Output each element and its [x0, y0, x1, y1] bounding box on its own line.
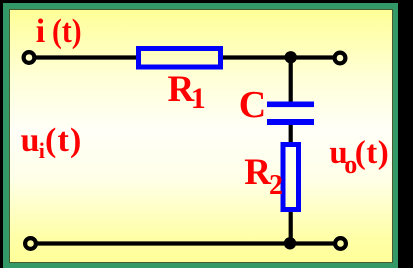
terminal bottom-right	[335, 238, 346, 249]
capacitor C top plate	[267, 102, 314, 108]
terminal top-left	[24, 52, 35, 63]
terminal top-right	[335, 53, 346, 64]
label uo(t)	[329, 137, 389, 179]
label ui(t)	[21, 124, 83, 162]
label R2	[244, 154, 283, 200]
terminal bottom-left	[25, 238, 36, 249]
junction node bottom	[284, 237, 296, 249]
wire R1 to top-right terminal	[221, 55, 334, 59]
wire vertical junction to capacitor	[289, 58, 293, 104]
resistor R1	[139, 49, 221, 68]
label i(t)	[36, 15, 86, 49]
junction node top	[285, 51, 297, 63]
capacitor C bottom plate	[267, 119, 314, 125]
label R1	[168, 71, 206, 114]
label C	[239, 86, 266, 124]
wire R2 to bottom junction	[289, 209, 293, 244]
resistor R2	[283, 145, 299, 210]
wire capacitor to R2	[289, 123, 293, 147]
wire top-left horizontal	[33, 55, 140, 59]
wire bottom horizontal	[38, 241, 335, 245]
